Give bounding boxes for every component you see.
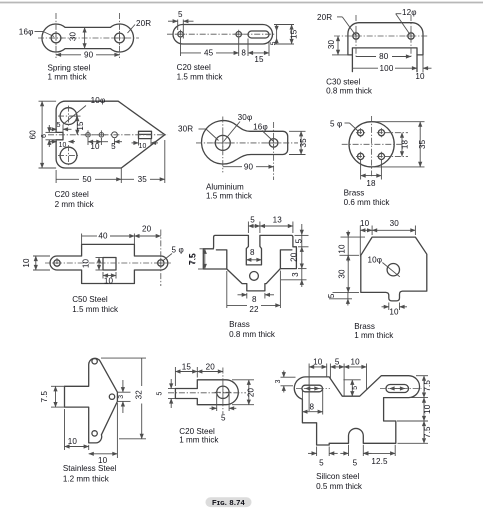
dim 40 part 7 (82, 232, 135, 245)
page top rule (0, 2, 483, 4)
svg-text:60: 60 (29, 130, 38, 140)
dim 10 tab part 9 (382, 303, 408, 317)
dim 15 part 11 (175, 362, 197, 386)
slot right in part 2 (248, 31, 269, 38)
svg-text:30: 30 (327, 40, 336, 50)
svg-text:5: 5 (319, 459, 324, 468)
svg-text:5: 5 (327, 293, 336, 298)
dim 10 tab offset part 3 (415, 55, 431, 81)
dim 5 slot top part 8 (248, 216, 260, 234)
svg-text:1 mm thick: 1 mm thick (354, 331, 394, 340)
svg-text:3: 3 (275, 379, 282, 383)
centerline horizontal part 11 (168, 392, 246, 394)
dim 18 bottom part 6 (361, 160, 382, 188)
slot left lobe part 12 (296, 385, 330, 392)
dim 32 part 10 (101, 358, 146, 439)
dim 35 part 4 (121, 140, 165, 184)
dim 5 notch part 4 (49, 122, 72, 133)
hole 5-dia right part 7 (156, 258, 166, 268)
svg-text:C30 steel: C30 steel (326, 78, 360, 87)
dim 5 valley part 12 (343, 380, 360, 396)
dim 10 slot width part 7 (103, 272, 116, 285)
part 6 outline: brass disc (349, 122, 394, 167)
svg-text:1.5 mm thick: 1.5 mm thick (72, 305, 119, 314)
svg-text:15: 15 (289, 29, 298, 39)
svg-text:5: 5 (353, 459, 358, 468)
figure caption pill (206, 497, 252, 507)
part 4 outline: C20 steel pointed plate with notch (56, 101, 165, 168)
svg-text:20: 20 (142, 225, 152, 234)
centerline vertical right hole (119, 13, 121, 58)
dim 15 slot length (248, 41, 269, 64)
svg-text:1.5 mm thick: 1.5 mm thick (206, 192, 253, 201)
svg-text:8: 8 (252, 295, 257, 304)
svg-text:90: 90 (244, 162, 254, 171)
dim 10 top part 9 (360, 219, 372, 257)
dim 20 right part 8 (290, 247, 307, 269)
svg-text:2 mm thick: 2 mm thick (55, 200, 95, 209)
svg-text:10: 10 (90, 142, 100, 151)
centerline horizontal part 1 (38, 37, 139, 39)
dim 5 left edge to hole (168, 10, 194, 38)
dim 20 top part 11 (197, 362, 223, 371)
dim 10 left arm part 7 (22, 256, 50, 270)
leader 5-dia part 6 (330, 119, 358, 131)
part 8 outline: brass clip bracket (203, 235, 296, 291)
svg-text:10: 10 (360, 219, 370, 228)
leader 10-dia through hole part 9 (368, 256, 400, 277)
dim 22 part 8 (227, 271, 281, 314)
dim 15 hole height part 4 (70, 116, 85, 135)
svg-text:8: 8 (309, 402, 314, 411)
hole 5-dia bottom-right part 6 (377, 152, 386, 161)
svg-text:12.5: 12.5 (371, 457, 388, 466)
svg-text:10: 10 (415, 72, 425, 81)
svg-text:10φ: 10φ (91, 96, 106, 105)
svg-text:10: 10 (59, 142, 67, 149)
svg-text:22: 22 (249, 305, 259, 314)
centerline vertical right hole part 7 (160, 230, 162, 287)
svg-text:10: 10 (351, 357, 361, 366)
svg-text:8: 8 (241, 49, 246, 58)
svg-text:3: 3 (118, 395, 125, 399)
svg-text:8: 8 (250, 248, 255, 257)
svg-text:10: 10 (423, 404, 432, 414)
svg-text:16φ: 16φ (19, 27, 34, 36)
svg-text:Brass: Brass (344, 188, 365, 197)
hole 5-dia top-right part 6 (377, 128, 386, 137)
dim 5 slot height (270, 25, 277, 45)
dim 7.5 left part 8 (189, 249, 205, 269)
svg-text:7.5: 7.5 (423, 426, 432, 438)
svg-text:7.5: 7.5 (423, 380, 432, 392)
leader 20R label (128, 19, 152, 33)
svg-text:Silicon steel: Silicon steel (316, 472, 359, 481)
dim 30 bar width (69, 27, 85, 48)
svg-text:1 mm thick: 1 mm thick (179, 435, 219, 444)
dim 13 part 8 (260, 216, 293, 234)
svg-text:10: 10 (104, 276, 114, 285)
svg-text:30: 30 (69, 32, 78, 42)
leader 12-dia part 3 (396, 8, 417, 35)
dim 7.5 right bottom part 12 (398, 421, 432, 443)
svg-text:10: 10 (139, 143, 147, 150)
svg-text:5: 5 (221, 414, 226, 423)
dim 8 tab part 8 (238, 293, 275, 304)
part 10 outline: stainless steel pointer plate (65, 358, 118, 443)
svg-text:C50 Steel: C50 Steel (72, 295, 108, 304)
dim 10 small holes part 4 (88, 138, 101, 151)
part 3 bottom tab (352, 48, 417, 72)
dim 35 vertical part 6 (374, 122, 427, 167)
svg-text:35: 35 (138, 175, 148, 184)
hole left part 7 (52, 258, 62, 268)
svg-text:80: 80 (379, 52, 389, 61)
svg-text:0.8 mm thick: 0.8 mm thick (326, 87, 373, 96)
svg-text:18: 18 (366, 179, 376, 188)
hole 30-dia part 5 (213, 133, 232, 152)
small hole 2 part 4 (97, 130, 106, 139)
small circle 3 part 4 (112, 132, 118, 138)
svg-text:5: 5 (157, 392, 164, 396)
svg-text:Stainless Steel: Stainless Steel (63, 464, 117, 473)
centerline part 2 (167, 33, 276, 35)
part 9 outline: brass chamfered plate (361, 237, 427, 301)
part 2 outline: C20 steel obround strip (173, 25, 273, 45)
dim 5 strip part 11 (157, 379, 176, 408)
dim 30 top part 9 (372, 219, 415, 235)
hole mid part 2 (234, 30, 243, 39)
dim 5 left bottom part 9 (327, 292, 352, 305)
svg-text:20: 20 (206, 362, 216, 371)
svg-text:Aluminium: Aluminium (206, 183, 244, 192)
svg-text:20: 20 (290, 252, 299, 262)
dim 8 left slot part 12 (302, 389, 322, 415)
svg-text:10φ: 10φ (368, 256, 383, 265)
svg-text:50: 50 (82, 175, 92, 184)
dim 7.5 part 10 (40, 386, 65, 407)
svg-text:10: 10 (337, 244, 346, 254)
dim 6 notch part 4 (41, 125, 57, 147)
svg-text:32: 32 (135, 390, 144, 400)
part 1 outline: spring steel link plate (42, 24, 134, 52)
dim 10 bottom-left part 10 (65, 409, 89, 450)
svg-text:100: 100 (380, 64, 394, 73)
hole middle part 10 (109, 394, 114, 399)
svg-text:45: 45 (204, 48, 214, 57)
dim 5 hole part 11 (210, 394, 237, 423)
dim 10 top-left part 12 (309, 357, 327, 411)
svg-text:40: 40 (98, 232, 108, 241)
part 3 outline: C30 steel plate rounded top (348, 23, 423, 55)
dim 10 notch-to-hole part 4 (50, 142, 75, 150)
dim 5 top part 12 (330, 357, 344, 396)
part 12 outline: silicon steel stamping (294, 376, 419, 445)
hole 16-dia right (113, 31, 127, 45)
dim 10 left part 9 (337, 231, 365, 263)
svg-text:5: 5 (335, 357, 340, 366)
dim 5 left leg part 12 (308, 447, 338, 468)
svg-text:90: 90 (84, 50, 94, 59)
leader 30-dia part 5 (224, 113, 253, 142)
svg-text:C20 steel: C20 steel (177, 63, 211, 72)
hole centre part 8 (250, 272, 259, 281)
svg-text:0.8 mm thick: 0.8 mm thick (229, 330, 276, 339)
hole 10-dia bottom part 4 (58, 145, 79, 166)
slot right lobe part 12 (386, 385, 409, 393)
dim 35 part 5 (289, 131, 308, 154)
centerline horizontal part 4 (48, 134, 168, 136)
svg-text:30φ: 30φ (238, 113, 253, 122)
dim 20 right part 11 (232, 380, 256, 405)
svg-text:10: 10 (82, 259, 91, 269)
svg-text:5: 5 (111, 142, 116, 151)
dim 100 part 3 (352, 64, 417, 73)
svg-text:5 φ: 5 φ (330, 119, 342, 128)
leader 20R part 3 (317, 13, 356, 35)
svg-text:13: 13 (273, 216, 283, 225)
hole left part 2 (176, 30, 185, 39)
leader 16-dia label (19, 27, 54, 36)
dim 10 bottom-right part 10 (89, 403, 118, 465)
svg-text:10: 10 (389, 308, 399, 317)
square slot part 7 (103, 258, 116, 271)
dim 10 right part 12 (397, 398, 432, 421)
svg-text:Fɪɢ. 8.74: Fɪɢ. 8.74 (212, 498, 246, 507)
centerline vertical part 6 (371, 116, 373, 176)
svg-text:3: 3 (291, 272, 300, 277)
leader 10-dia part 4 (63, 96, 106, 125)
hole 12-dia right part 3 (406, 31, 416, 41)
svg-text:5: 5 (57, 122, 61, 129)
dim 12.5 part 12 (363, 445, 395, 466)
dim 10 slot part 4 (132, 138, 159, 150)
hole 12-dia left part 3 (351, 31, 361, 41)
svg-text:5: 5 (352, 386, 359, 390)
centerline vertical left hole (55, 13, 57, 58)
leader 5-dia part 7 (163, 246, 184, 262)
centerline horizontal part 6 (342, 143, 404, 145)
hole top part 10 (92, 359, 97, 364)
svg-text:20: 20 (247, 388, 256, 398)
svg-text:5 φ: 5 φ (172, 246, 184, 255)
dim 45 and 8 bottom (181, 38, 249, 58)
svg-text:1.5 mm thick: 1.5 mm thick (177, 73, 224, 82)
dim 90 between hole centres (56, 50, 120, 59)
part 8 inner step lines (216, 250, 292, 269)
svg-text:20R: 20R (317, 13, 332, 22)
small hole 1 part 4 (84, 130, 93, 139)
dim 30 left part 9 (333, 255, 360, 292)
hole 5-dia top-left part 6 (356, 128, 365, 137)
centerline horizontal part 7 (45, 262, 172, 264)
dim 60 part 4 (29, 101, 57, 168)
part 11 outline: C20 steel strip with round end (175, 380, 238, 405)
dim 90 part 5 (223, 162, 274, 171)
svg-text:1 mm thick: 1 mm thick (48, 73, 88, 82)
dim 15 plate height (274, 25, 298, 45)
hole 10-dia top part 4 (58, 106, 79, 127)
dim 3 part 10 (117, 380, 130, 413)
centerline right lobe part 12 (380, 388, 422, 390)
svg-text:C20 steel: C20 steel (55, 190, 89, 199)
dim 3 left part 12 (275, 371, 296, 393)
svg-text:Brass: Brass (354, 322, 375, 331)
centerline vertical small end part 5 (273, 122, 275, 180)
svg-text:Brass: Brass (229, 320, 250, 329)
svg-text:10: 10 (313, 357, 323, 366)
dim 50 part 4 (56, 168, 121, 184)
svg-text:20R: 20R (136, 19, 151, 28)
dim 7.5 right top part 12 (410, 376, 432, 398)
centerline horizontal part 3 (334, 35, 428, 37)
dim 20 part 7 (134, 225, 160, 237)
svg-text:0.6 mm thick: 0.6 mm thick (344, 198, 391, 207)
hole part 11 (215, 384, 231, 400)
centerline horizontal part 5 (196, 142, 298, 144)
svg-text:18: 18 (401, 140, 410, 150)
leader 16-dia part 5 (253, 122, 273, 141)
centerline vertical holes part 3 (355, 15, 357, 58)
svg-text:16φ: 16φ (253, 122, 268, 131)
svg-text:15: 15 (254, 55, 264, 64)
svg-text:12φ: 12φ (402, 8, 417, 17)
centerline vertical part 11 (222, 368, 224, 415)
svg-text:7.5: 7.5 (40, 391, 49, 403)
slot near tip part 4 (139, 131, 152, 138)
svg-text:5: 5 (178, 10, 183, 19)
svg-text:0.5 mm thick: 0.5 mm thick (316, 482, 363, 491)
svg-text:35: 35 (418, 139, 427, 149)
centerline vertical big end part 5 (222, 117, 224, 173)
dim 3 right part 8 (281, 269, 307, 287)
svg-text:5: 5 (270, 41, 277, 45)
svg-text:6: 6 (41, 134, 48, 138)
dim 8 slot part 8 (246, 248, 261, 260)
svg-text:30: 30 (338, 269, 347, 279)
svg-text:7.5: 7.5 (189, 253, 198, 265)
part 7 outline: C50 steel plate with arms (50, 244, 168, 283)
svg-text:10: 10 (68, 437, 78, 446)
dim 5 arch part 12 (340, 445, 371, 468)
dim 5 right part 8 (295, 224, 309, 247)
leader 30R part 5 (178, 125, 219, 141)
svg-text:5: 5 (250, 216, 255, 225)
dim 30 vertical part 3 (327, 36, 348, 55)
dim 5 hole-circle part 4 (101, 139, 122, 152)
hole 16-dia part 5 (267, 137, 280, 150)
svg-text:15: 15 (76, 121, 85, 131)
hole 10-dia part 9 (387, 264, 399, 276)
svg-text:10: 10 (22, 258, 31, 268)
hole 5-dia bottom-left part 6 (356, 152, 365, 161)
svg-text:30R: 30R (178, 125, 193, 134)
svg-text:15: 15 (182, 362, 192, 371)
dim 10 slot height part 7 (82, 258, 104, 271)
svg-text:30: 30 (390, 219, 400, 228)
svg-text:1.2 mm thick: 1.2 mm thick (63, 474, 110, 483)
dim 18 vertical part 6 (384, 133, 410, 157)
part 5 outline: aluminium crank lever (202, 121, 288, 164)
hole bottom part 10 (92, 431, 97, 436)
svg-text:35: 35 (299, 138, 308, 148)
svg-text:5: 5 (295, 238, 304, 243)
dim 80 part 3 (356, 52, 411, 61)
svg-text:Spring steel: Spring steel (48, 63, 91, 72)
dim 10 top-right part 12 (344, 357, 366, 390)
hole 16-dia left (49, 31, 63, 45)
